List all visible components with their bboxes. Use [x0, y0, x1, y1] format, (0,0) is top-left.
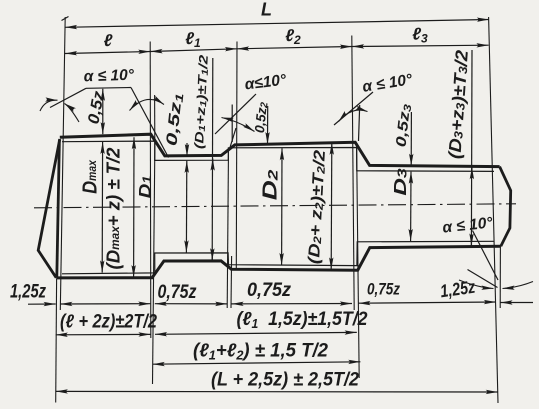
dim 1.25z right outside arrow — [500, 302, 533, 304]
dim (D1+z1)±T1/2 — [211, 58, 214, 260]
svg-text:0,75z: 0,75z — [367, 280, 400, 299]
dimension line l1 — [150, 49, 237, 52]
part shoulder 1-2 extension — [153, 141, 155, 384]
extension line l1/l2 boundary — [235, 42, 238, 271]
steep draft line at 2-3 corner — [229, 128, 236, 150]
draft slant at right end bottom — [473, 231, 499, 281]
part top profile (thin) — [62, 141, 494, 171]
dim 0.75z arrows at 1-2 and 2-3 — [155, 303, 228, 305]
extension line, blank left end to bottom dims — [55, 279, 58, 403]
dim D1 — [185, 161, 187, 253]
alpha arc 3-4 — [339, 110, 368, 121]
alpha arc right end, right piece — [503, 282, 534, 289]
dim 0.5z — [102, 89, 104, 134]
center line (axis) — [34, 204, 516, 208]
alpha arc left end, left piece — [40, 100, 58, 111]
blank chamfered left end — [38, 139, 60, 278]
dimension line (l1+1.5z)±1.5T/2 — [155, 332, 357, 334]
dimension line (l+2z)±2T/2 — [56, 333, 151, 335]
dimension line l3 — [352, 45, 489, 46]
dim 0.5z3 — [410, 112, 412, 166]
extension line, part right face — [489, 17, 498, 403]
label (Dmax+z)±T/2 — [103, 148, 124, 270]
dim (D3+z3) top arrow — [471, 167, 473, 174]
label 0.5z — [84, 89, 108, 125]
svg-text:(Dmax+ z) ± T/2: (Dmax+ z) ± T/2 — [103, 148, 124, 270]
blank corner 2-3 extension — [230, 256, 233, 308]
svg-text:L: L — [261, 0, 272, 20]
draft slant extension at 2-3 step — [215, 94, 256, 134]
alpha arc 2-3 — [222, 118, 255, 132]
dim (D2+z2)±T2/2 — [330, 143, 333, 270]
label (D2+z2)±T2/2 — [305, 149, 329, 264]
extension line, part left face / L-l datum — [60, 17, 65, 310]
alpha arc right end, left piece — [459, 280, 494, 289]
dim (Dmax+z)±T/2 — [133, 137, 135, 277]
tick at datum line top — [62, 17, 69, 21]
allowance arrows between left pairs — [60, 303, 150, 305]
blank top profile: Dmax step, neck D1, step D2, step D3 — [60, 134, 500, 166]
dimension line (L+2.5z)±2.5T/2 — [56, 390, 498, 393]
dim (D3+z3) bottom arrow — [470, 239, 472, 246]
dim arrows 3-4 to right end — [358, 302, 496, 303]
dim 1.25z left, outside arrow — [28, 303, 56, 305]
extension line l2/l3 boundary — [352, 36, 354, 311]
dimension line (l1+l2)±1.5T/2 — [153, 362, 361, 364]
vertical ref at 3-4 step — [359, 105, 360, 141]
svg-text:α ≤ 10°: α ≤ 10° — [83, 67, 135, 86]
second draft line at right end — [468, 270, 498, 288]
vertical ref at 1-2 step — [154, 95, 156, 140]
dim (D1+z1) bottom arrow — [211, 254, 213, 260]
dimension line l2 — [237, 47, 352, 49]
dim Dmax — [101, 142, 103, 273]
part bottom profile (thin) — [62, 241, 494, 273]
alpha arc 1-2 over the slant — [130, 99, 165, 110]
dimension line L — [65, 20, 489, 28]
dimension line l — [65, 52, 150, 54]
blank left face — [57, 140, 60, 278]
label 0.5z3 — [393, 103, 414, 148]
dim D3 — [410, 172, 412, 241]
dim 0.5z2 — [267, 106, 269, 144]
svg-text:0,75z: 0,75z — [158, 281, 197, 303]
extension line l/l1 boundary — [149, 42, 152, 339]
alpha arc left end, right piece — [65, 104, 80, 123]
label D1 — [135, 176, 154, 199]
dim (D3+z3)±T3/2 — [470, 50, 473, 246]
label 0.5z2 — [252, 101, 270, 134]
label D3 — [390, 168, 410, 196]
svg-text:(L + 2,5z) ± 2,5T/2: (L + 2,5z) ± 2,5T/2 — [211, 370, 359, 391]
svg-text:(ℓ + 2z)±2T/2: (ℓ + 2z)±2T/2 — [60, 312, 157, 333]
right draft slant to neck — [131, 88, 169, 158]
label (D1+z1)±T1/2 — [193, 54, 212, 150]
blank bottom profile — [56, 246, 501, 278]
draft slant extension at 3-4 step — [334, 92, 373, 125]
dim 0.75z arrows at 2-3 and 3-4 — [232, 303, 353, 305]
label Dmax — [79, 159, 101, 194]
label D2 — [259, 169, 282, 200]
blank right corner extension — [499, 246, 501, 308]
vertical ref at 2-3 step — [231, 105, 233, 143]
label 0.5z1 — [163, 92, 186, 147]
svg-text:1,25z: 1,25z — [10, 282, 46, 303]
svg-text:0,75z: 0,75z — [247, 280, 291, 301]
part shoulder 3-4 extension — [357, 146, 360, 378]
blank chamfered right end — [500, 167, 511, 247]
part shoulder 2-3 extension — [227, 148, 228, 308]
dim 0.5z1 — [186, 143, 188, 156]
label (D3+z3)±T3/2 — [444, 49, 471, 160]
svg-text:ℓ: ℓ — [104, 31, 113, 50]
dim (D1+z1) top arrow — [212, 159, 214, 166]
dim D2 — [281, 148, 283, 265]
left draft slant — [50, 88, 86, 107]
blank draft flat over Dmax step — [86, 87, 131, 90]
